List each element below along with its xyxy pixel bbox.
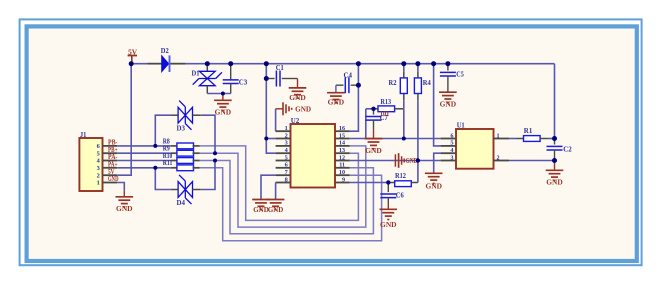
ground C1: [297, 79, 299, 88]
svg-text:C3: C3: [239, 78, 248, 86]
svg-text:R8: R8: [163, 138, 171, 145]
wire R13 left: [366, 108, 374, 110]
wire U2.9 to R12: [350, 182, 389, 184]
svg-text:GND: GND: [365, 146, 382, 155]
power port GND U2.1: [276, 108, 283, 110]
capacitor C7: [373, 109, 375, 115]
capacitor C6: [387, 183, 389, 193]
wire U2.15 to U1.6: [350, 138, 441, 140]
svg-text:5: 5: [450, 140, 453, 147]
svg-text:GND: GND: [116, 204, 133, 213]
wire R12 to node: [417, 161, 419, 183]
svg-text:R13: R13: [381, 98, 392, 106]
node R2-R13 to U1.6 wire: [402, 137, 406, 141]
IC U2: [291, 124, 336, 188]
power port GND node: [394, 154, 396, 166]
J1 pin 3: [103, 167, 118, 169]
resistor R1: [509, 138, 517, 140]
node D4 left on PA+ row: [153, 166, 157, 170]
wire 5V top rail: [131, 63, 554, 65]
resistor R4: [417, 64, 419, 72]
diode D4 TVS: [155, 168, 171, 190]
J1 pin 6: [103, 145, 118, 147]
svg-text:3: 3: [285, 140, 288, 147]
node R13/C7: [371, 107, 375, 111]
wire VCC to U2.2/U2.4: [266, 64, 275, 154]
J1 pin 1: [103, 182, 118, 184]
svg-text:14: 14: [339, 141, 345, 147]
ground C4: [327, 92, 345, 94]
svg-text:GND: GND: [380, 220, 397, 229]
capacitor C2: [554, 139, 556, 145]
svg-text:R2: R2: [389, 79, 397, 87]
ground C2: [554, 161, 556, 171]
node 5V rail at power port: [129, 61, 134, 66]
ground C6: [380, 208, 398, 210]
ground D1/C3: [222, 94, 224, 101]
node U1.2/C2/GND: [552, 158, 557, 163]
ground U2.8: [267, 199, 285, 201]
svg-text:5V: 5V: [128, 48, 138, 57]
diode D1 TVS: [206, 64, 208, 71]
node U2.2 VCC: [264, 137, 268, 141]
svg-text:GND: GND: [295, 104, 311, 113]
J1 pin 2: [103, 174, 118, 176]
svg-text:R1: R1: [524, 127, 533, 135]
node rail/C3: [228, 61, 233, 66]
node gnd tap D1/C3: [221, 92, 225, 96]
svg-text:U2: U2: [291, 116, 300, 125]
node C1 tap: [264, 76, 269, 81]
svg-text:C1: C1: [276, 64, 284, 72]
svg-text:R12: R12: [395, 172, 406, 180]
svg-text:8: 8: [285, 176, 288, 183]
svg-text:C2: C2: [563, 146, 572, 154]
svg-text:R4: R4: [423, 79, 431, 87]
resistor R8: [117, 145, 171, 147]
svg-text:C5: C5: [456, 71, 464, 79]
svg-text:2: 2: [496, 155, 499, 161]
svg-text:12: 12: [339, 155, 345, 161]
wire R9 loop: [200, 146, 366, 227]
svg-text:2: 2: [97, 172, 100, 179]
svg-text:1: 1: [496, 133, 499, 139]
resistor R13: [374, 108, 379, 110]
svg-text:GND: GND: [253, 205, 269, 214]
wire J1 GND pin: [117, 183, 124, 191]
wire U2.16 VCC: [350, 64, 359, 132]
svg-text:R9: R9: [163, 146, 171, 153]
svg-text:C4: C4: [344, 72, 353, 80]
svg-text:GND: GND: [328, 98, 345, 107]
node rail/R4: [415, 61, 420, 66]
capacitor C5: [447, 64, 449, 71]
svg-text:1: 1: [97, 180, 100, 187]
wire R10 loop: [200, 161, 374, 234]
diode D2: [148, 63, 162, 65]
ground U1.4: [425, 172, 443, 174]
node rail/R1/C2: [552, 136, 557, 141]
wire R11 loop: [200, 168, 382, 241]
svg-text:D2: D2: [161, 47, 169, 55]
U2 left pins: [276, 130, 291, 132]
svg-text:GND: GND: [406, 156, 418, 165]
node rail/C1 branch: [264, 61, 269, 66]
svg-text:6: 6: [285, 162, 288, 169]
node rail/U1.5 branch: [431, 61, 436, 66]
J1 pin 5: [103, 152, 118, 154]
svg-text:3: 3: [450, 154, 453, 161]
svg-text:C7: C7: [380, 115, 389, 122]
svg-text:5: 5: [285, 154, 288, 161]
svg-text:5: 5: [97, 150, 100, 157]
wire 5V rail to J1: [117, 64, 131, 176]
svg-text:GND: GND: [440, 100, 457, 109]
resistor R11: [117, 167, 171, 169]
wire R8 loop: [200, 146, 359, 221]
svg-text:GND: GND: [268, 205, 284, 214]
resistor R12: [388, 182, 395, 184]
node rail/R2: [401, 61, 406, 66]
node D3 left on PB- row: [153, 144, 157, 148]
svg-text:6: 6: [97, 143, 100, 150]
J1 pin 4: [103, 160, 118, 162]
wire U2.1 to GND port: [275, 109, 277, 131]
wire VCC to U1.5: [434, 64, 441, 146]
svg-text:6: 6: [450, 132, 453, 139]
node U2.9/R12/C6: [386, 180, 390, 184]
svg-text:16: 16: [339, 126, 345, 132]
svg-text:7: 7: [285, 169, 288, 176]
svg-text:3: 3: [97, 165, 100, 172]
wire U1.2 to C2: [509, 160, 555, 162]
wire U2.8 to gnd: [275, 183, 277, 200]
svg-text:GND: GND: [215, 108, 232, 117]
node R4/R12/U1.3: [416, 158, 420, 162]
node rail/C5: [445, 61, 450, 66]
capacitor C1: [266, 78, 274, 80]
wire U1.4 to gnd: [434, 153, 441, 173]
ground J1: [123, 191, 125, 197]
power port 5V: [131, 56, 133, 64]
svg-text:9: 9: [342, 177, 345, 183]
wire U2.12 to U1.3: [350, 160, 441, 162]
svg-text:15: 15: [339, 133, 345, 139]
resistor R2: [403, 64, 405, 72]
U1 pin 2: [494, 160, 510, 162]
wire R4 down to node: [417, 100, 419, 160]
node D3 right on PB+ row: [213, 151, 217, 155]
svg-text:D1: D1: [192, 70, 200, 78]
svg-text:GND: GND: [546, 178, 563, 187]
svg-text:GND: GND: [289, 93, 306, 102]
svg-text:10: 10: [339, 170, 345, 176]
wire U2.2 tap: [266, 138, 275, 140]
ground U2.7: [252, 199, 270, 201]
node C4 tap: [356, 83, 361, 88]
svg-text:11: 11: [339, 163, 345, 169]
ground C7: [365, 138, 383, 140]
node rail/D1: [205, 61, 210, 66]
ground C5: [439, 91, 457, 93]
svg-text:1: 1: [285, 125, 288, 132]
capacitor C3: [230, 64, 232, 80]
wire R2/R13 node to U1.6: [403, 109, 405, 139]
svg-text:D4: D4: [177, 199, 186, 207]
svg-text:R10: R10: [163, 153, 173, 160]
resistor R9: [117, 152, 171, 154]
wire rail right drop: [554, 64, 556, 139]
node rail/U2.16: [356, 61, 361, 66]
svg-text:GND: GND: [425, 182, 442, 191]
connector J1: [79, 138, 102, 191]
svg-text:R11: R11: [163, 160, 173, 167]
U1 pin 1: [494, 138, 510, 140]
svg-text:J1: J1: [80, 131, 87, 139]
svg-text:GND: GND: [108, 175, 119, 183]
node D4 right on PA- row: [213, 159, 217, 163]
capacitor C4: [351, 84, 359, 86]
svg-text:C6: C6: [396, 192, 404, 200]
wire D1/C3 bottom: [207, 93, 230, 95]
U2 right pins: [335, 130, 350, 132]
svg-text:2: 2: [285, 132, 288, 139]
IC U1: [456, 129, 494, 169]
resistor R10: [117, 160, 171, 162]
svg-text:U1: U1: [457, 121, 465, 130]
wire U2.7 to gnd: [261, 175, 276, 199]
diode D3 TVS: [155, 115, 171, 146]
svg-text:13: 13: [339, 148, 345, 154]
svg-text:D3: D3: [177, 125, 186, 133]
